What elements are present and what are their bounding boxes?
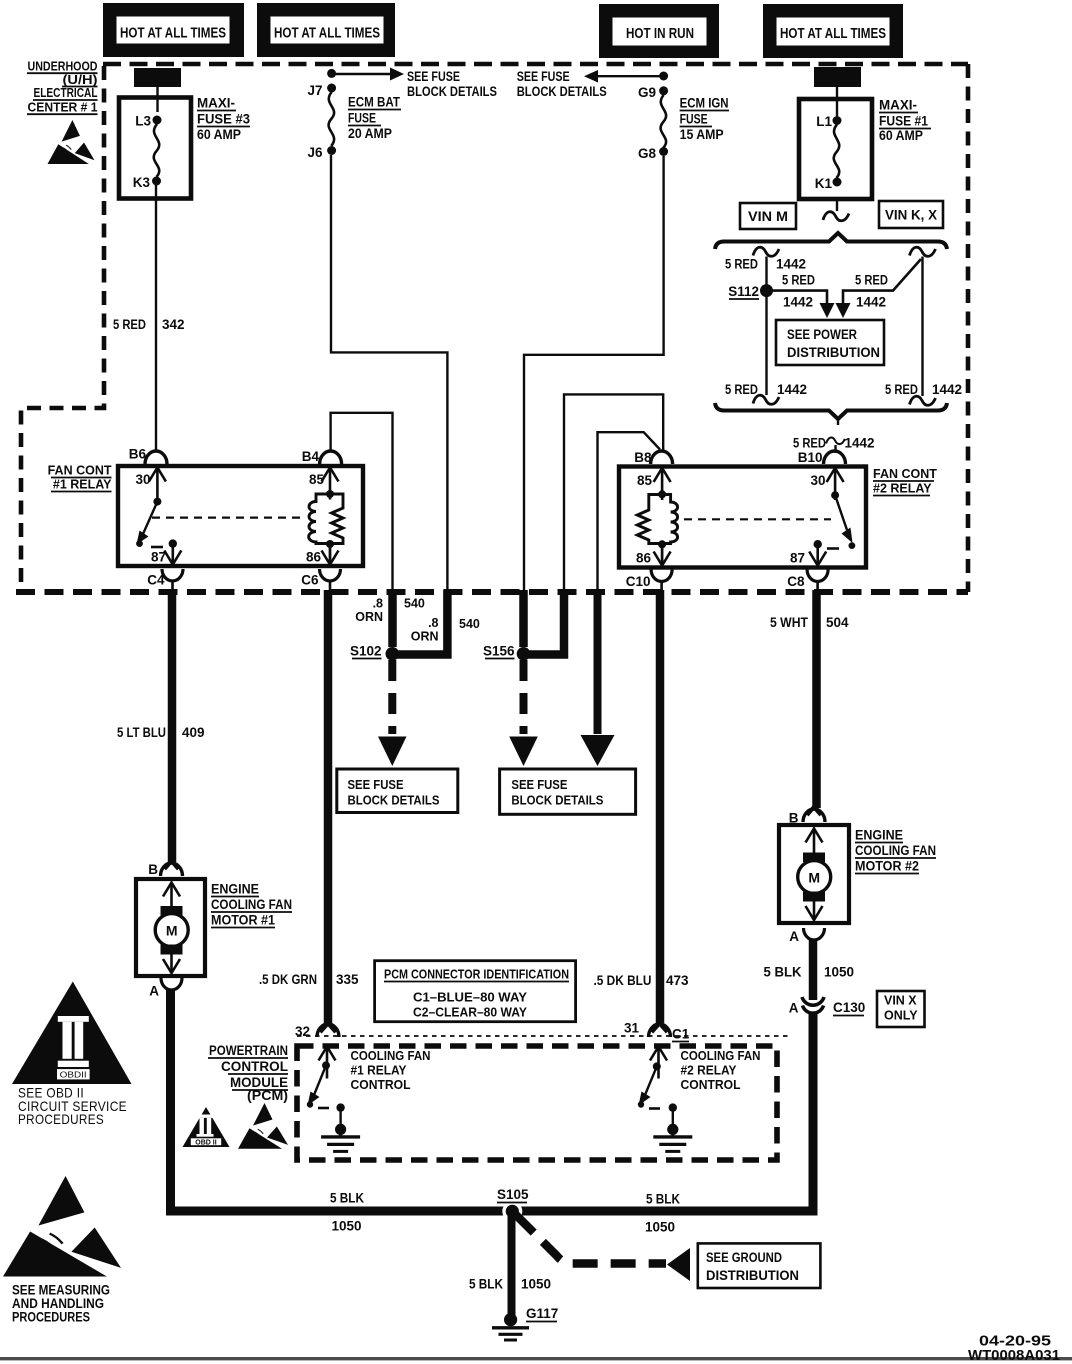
svg-text:30: 30: [135, 472, 150, 487]
fuse F3 terminal L3: [153, 116, 162, 125]
break VIN M branch: [753, 247, 779, 256]
svg-text:1050: 1050: [332, 1219, 362, 1234]
connector 32 at PCM: [317, 1024, 339, 1037]
svg-text:.5 DK BLU: .5 DK BLU: [594, 973, 652, 988]
connector A (motor 1): [161, 978, 182, 990]
FAN CONT #1 RELAY box: [118, 466, 363, 566]
connector B10: [824, 451, 846, 464]
relay2 switch common node: [831, 491, 839, 499]
relay2 pin 85: [654, 468, 671, 500]
svg-text:C1: C1: [672, 1027, 690, 1042]
heavy wire C6 to PCM pin 32 (.5 DK GRN 335): [324, 590, 333, 1023]
svg-text:1442: 1442: [776, 257, 806, 272]
svg-text:A: A: [789, 1001, 799, 1016]
motor1 brush top: [161, 906, 183, 916]
svg-text:C1–BLUE–80 WAY: C1–BLUE–80 WAY: [413, 990, 527, 1005]
svg-text:1442: 1442: [932, 382, 962, 397]
relay2 pin 86: [661, 544, 663, 566]
wire B4 feed riser (S102 to relay1 coil): [331, 413, 393, 592]
wire feed bar to fuse box: [156, 87, 158, 112]
svg-text:COOLING FAN: COOLING FAN: [211, 897, 292, 912]
PCM pin 31 arrow: [650, 1047, 667, 1079]
scan edge line: [0, 1357, 1072, 1360]
label 04-20-95 / WT0008A031: [968, 1334, 1060, 1364]
svg-text:HOT AT ALL TIMES: HOT AT ALL TIMES: [780, 26, 886, 42]
POWERTRAIN CONTROL MODULE (PCM) dashed box: [297, 1046, 777, 1160]
wire J6 down and over to S102 riser: [331, 155, 447, 592]
svg-text:#2 RELAY: #2 RELAY: [873, 482, 932, 496]
svg-text:VIN K, X: VIN K, X: [885, 208, 937, 223]
svg-text:A: A: [789, 929, 799, 944]
svg-text:C2–CLEAR–80 WAY: C2–CLEAR–80 WAY: [413, 1005, 527, 1020]
relay2 switch contact dash: [827, 547, 839, 550]
svg-text:SEE GROUND: SEE GROUND: [706, 1250, 782, 1265]
PCM driver 2 switch arm: [645, 1066, 657, 1095]
svg-text:86: 86: [306, 550, 322, 565]
PCM driver 1 ground: [339, 1108, 341, 1125]
svg-text:FUSE #3: FUSE #3: [197, 112, 250, 127]
ENGINE COOLING FAN MOTOR #2 box: [779, 825, 849, 923]
svg-text:5 RED: 5 RED: [725, 257, 758, 272]
svg-text:G117: G117: [526, 1306, 558, 1321]
SEE FUSE BLOCK DETAILS box (left): [337, 769, 458, 813]
connector 31 / C1 at PCM: [649, 1024, 671, 1037]
motor1 brush bottom: [161, 945, 183, 955]
svg-text:CONTROL: CONTROL: [681, 1077, 741, 1092]
connector C8: [807, 570, 828, 582]
svg-text:POWERTRAIN: POWERTRAIN: [209, 1043, 288, 1058]
label .8 ORN 540 (right pair): [411, 616, 480, 644]
label FAN CONT #2 RELAY: [873, 467, 937, 496]
relay2 contact 87 node: [814, 540, 822, 548]
relay1 coil top node: [326, 490, 334, 498]
svg-text:B8: B8: [634, 450, 652, 465]
MAXI-FUSE #1 feed bar: [814, 67, 861, 87]
relay1 pin 87: [172, 544, 174, 565]
ENGINE COOLING FAN MOTOR #1 box: [136, 879, 205, 976]
wire feed bar to fuse box: [836, 87, 838, 116]
fuse ECM IGN terminal G8: [659, 147, 668, 156]
connector B (motor 2): [803, 809, 825, 822]
dashed heavy wire S105 to ground distribution: [516, 1215, 666, 1264]
svg-text:M: M: [166, 923, 178, 939]
svg-text:60 AMP: 60 AMP: [197, 127, 241, 142]
svg-text:SEE FUSE: SEE FUSE: [407, 69, 460, 84]
ECM BAT fuse node J7: [327, 69, 336, 78]
svg-text:409: 409: [182, 725, 205, 740]
SEE POWER DISTRIBUTION box: [776, 320, 884, 365]
splice S112: [760, 284, 773, 297]
svg-text:504: 504: [826, 615, 849, 630]
PCM driver 1 switch arm: [314, 1065, 326, 1095]
svg-text:5 RED: 5 RED: [782, 273, 815, 288]
svg-text:C10: C10: [626, 574, 651, 589]
connector C10: [651, 570, 672, 582]
connector C6: [320, 569, 341, 581]
svg-text:C4: C4: [147, 573, 165, 588]
svg-text:S156: S156: [483, 644, 515, 659]
svg-text:FAN CONT: FAN CONT: [48, 464, 112, 478]
fuse F1 element: [834, 125, 839, 179]
svg-text:L3: L3: [135, 114, 151, 129]
svg-text:540: 540: [459, 617, 480, 631]
svg-text:ECM BAT: ECM BAT: [348, 95, 401, 110]
motor1 armature lead: [171, 882, 173, 973]
relay1 pin 86: [329, 544, 331, 565]
fuse F1 terminal L1: [833, 116, 842, 125]
heavy wire B8 branch to fuse block: [594, 590, 602, 734]
label SEE FUSE BLOCK DETAILS (second): [517, 69, 607, 99]
heavy wire C130 to ground bus: [508, 1012, 813, 1211]
svg-text:15 AMP: 15 AMP: [680, 127, 724, 142]
SEE GROUND DISTRIBUTION box: [698, 1243, 821, 1288]
heavy wire C8 to motor 2 (5 WHT 504): [812, 590, 821, 808]
svg-text:HOT AT ALL TIMES: HOT AT ALL TIMES: [120, 26, 226, 42]
PCM driver 2 ground: [672, 1108, 674, 1125]
wire VIN M branch to S112: [765, 257, 767, 396]
label UNDERHOOD (U/H) ELECTRICAL CENTER # 1: [27, 59, 98, 115]
svg-text:5 BLK: 5 BLK: [469, 1277, 503, 1292]
svg-text:MAXI-: MAXI-: [879, 98, 917, 113]
fuse F3 element: [154, 124, 159, 177]
svg-text:J6: J6: [307, 145, 323, 160]
svg-text:G8: G8: [638, 146, 657, 161]
relay1 coil bottom node: [326, 540, 334, 548]
svg-text:60 AMP: 60 AMP: [879, 128, 923, 143]
svg-text:FUSE #1: FUSE #1: [879, 114, 928, 129]
label ECM IGN FUSE 15 AMP: [680, 96, 729, 143]
FAN CONT #2 RELAY box: [619, 467, 866, 568]
motor2 pin out arrow: [806, 899, 823, 920]
relay1 coil: [309, 494, 343, 544]
svg-text:#1 RELAY: #1 RELAY: [53, 478, 112, 492]
svg-text:87: 87: [151, 550, 166, 565]
svg-text:J7: J7: [307, 83, 322, 98]
svg-text:PCM CONNECTOR IDENTIFICATION: PCM CONNECTOR IDENTIFICATION: [384, 967, 569, 982]
svg-text:OBDII: OBDII: [60, 1070, 87, 1080]
svg-text:5 BLK: 5 BLK: [646, 1192, 680, 1207]
svg-text:FAN CONT: FAN CONT: [873, 467, 937, 481]
svg-text:#1 RELAY: #1 RELAY: [351, 1063, 407, 1078]
PCM CONNECTOR IDENTIFICATION box: [375, 961, 576, 1022]
svg-text:1442: 1442: [783, 295, 813, 310]
motor1 pin out arrow: [163, 952, 180, 973]
relay1 pin 30: [149, 468, 166, 500]
maxi-fuse #3 box: [119, 98, 191, 199]
svg-text:M: M: [808, 870, 820, 886]
label FAN CONT #1 RELAY: [48, 464, 113, 492]
VIN M box: [740, 203, 796, 229]
svg-text:MOTOR #2: MOTOR #2: [855, 859, 919, 874]
svg-text:BLOCK DETAILS: BLOCK DETAILS: [517, 84, 607, 99]
PCM driver 2 switch node: [653, 1062, 661, 1070]
svg-text:ELECTRICAL: ELECTRICAL: [34, 85, 98, 100]
heavy wire motor1 to ground bus: [171, 990, 513, 1211]
heavy wire S105 to G117: [508, 1214, 516, 1316]
wire S112 to power distribution arrow: [767, 291, 828, 304]
ESD small warning triangle: [238, 1103, 288, 1149]
svg-text:K3: K3: [133, 175, 151, 190]
svg-text:HOT IN RUN: HOT IN RUN: [626, 26, 694, 42]
svg-text:ENGINE: ENGINE: [855, 828, 903, 843]
splice S156: [517, 647, 531, 661]
svg-text:ECM IGN: ECM IGN: [680, 96, 729, 111]
svg-text:VIN X: VIN X: [884, 994, 917, 1008]
fuse F1 terminal K1: [833, 178, 842, 187]
fuse ECM BAT terminal J6: [327, 146, 336, 155]
heavy wire ECM BAT drop into S102: [396, 590, 447, 655]
svg-text:S102: S102: [350, 644, 382, 659]
relay1 switch common node: [153, 498, 161, 506]
svg-text:5 RED: 5 RED: [113, 317, 146, 332]
motor2 brush bottom: [803, 892, 825, 902]
relay1 switch contact dash: [151, 546, 163, 549]
label COOLING FAN #1 RELAY CONTROL: [351, 1048, 431, 1092]
svg-text:SEE FUSE: SEE FUSE: [517, 69, 570, 84]
svg-text:COOLING FAN: COOLING FAN: [681, 1048, 761, 1063]
break below fuse 1: [823, 212, 849, 221]
svg-text:1442: 1442: [845, 436, 875, 451]
motor2 armature lead: [813, 828, 815, 920]
label ENGINE COOLING FAN MOTOR #2: [855, 828, 936, 874]
svg-text:.8: .8: [428, 616, 438, 630]
ESD large symbol: [3, 1176, 121, 1276]
label COOLING FAN #2 RELAY CONTROL: [681, 1048, 761, 1092]
wire branch to see fuse block details: [332, 73, 390, 75]
svg-text:WT0008A031: WT0008A031: [968, 1348, 1060, 1364]
PCM driver 2 contact dash: [649, 1107, 660, 1110]
svg-text:COOLING FAN: COOLING FAN: [351, 1048, 431, 1063]
heavy wire C10 to PCM pin 31 (.5 DK BLU 473): [656, 590, 665, 1023]
svg-text:BLOCK DETAILS: BLOCK DETAILS: [511, 792, 603, 807]
svg-text:87: 87: [790, 551, 805, 566]
connector B4: [320, 451, 342, 464]
connector C130: [802, 997, 824, 1013]
svg-text:L1: L1: [816, 114, 832, 129]
svg-text:CENTER # 1: CENTER # 1: [28, 100, 98, 115]
connector B (motor 1): [161, 863, 183, 876]
svg-text:5 LT BLU: 5 LT BLU: [117, 725, 166, 740]
svg-text:FUSE: FUSE: [680, 112, 708, 127]
wire B8 feed riser (S156 to relay2 coil): [564, 394, 663, 592]
svg-text:85: 85: [309, 472, 325, 487]
svg-text:B: B: [148, 862, 158, 877]
label MAXI-FUSE #1 60 AMP: [879, 98, 931, 144]
svg-text:335: 335: [336, 972, 359, 987]
svg-text:1050: 1050: [824, 965, 854, 980]
wire branch G9 to see fuse block details: [584, 70, 598, 83]
motor M1: [155, 914, 188, 947]
fuse ECM BAT terminal J7: [327, 84, 336, 93]
svg-text:ONLY: ONLY: [884, 1009, 918, 1023]
motor2 pin in arrow: [806, 829, 823, 861]
svg-text:B10: B10: [798, 450, 823, 465]
svg-text:S105: S105: [497, 1187, 529, 1202]
svg-text:.8: .8: [373, 597, 383, 611]
OBD II small warning triangle: [183, 1107, 230, 1147]
PCM connector split dotted line: [297, 1035, 790, 1037]
svg-text:(PCM): (PCM): [247, 1088, 288, 1103]
svg-text:PROCEDURES: PROCEDURES: [12, 1310, 90, 1325]
svg-text:SEE POWER: SEE POWER: [787, 327, 857, 342]
motor1 pin in arrow: [163, 883, 180, 915]
svg-text:COOLING FAN: COOLING FAN: [855, 843, 936, 858]
relay2 pin 30: [827, 468, 844, 500]
label SEE MEASURING AND HANDLING PROCEDURES: [12, 1283, 110, 1325]
relay2 switch arm: [835, 495, 847, 530]
wire bracket to break to B10: [837, 419, 839, 425]
connector B6: [145, 451, 167, 464]
heavy wire C4 to motor 1 (5 LT BLU 409): [168, 590, 177, 862]
svg-text:20 AMP: 20 AMP: [348, 126, 392, 141]
svg-text:.5 DK GRN: .5 DK GRN: [259, 972, 317, 987]
svg-text:ORN: ORN: [355, 610, 383, 624]
label POWERTRAIN CONTROL MODULE (PCM): [208, 1043, 288, 1103]
option bracket (bottom): [715, 403, 947, 419]
svg-text:DISTRIBUTION: DISTRIBUTION: [706, 1268, 799, 1283]
title box HOT AT ALL TIMES (second): [257, 3, 395, 57]
heavy wire motor2 to C130: [809, 940, 818, 1000]
wire VIN K,X branch down: [921, 257, 923, 397]
svg-text:MOTOR #1: MOTOR #1: [211, 913, 275, 928]
svg-text:DISTRIBUTION: DISTRIBUTION: [787, 345, 880, 360]
wire K3 to B6 (5 RED 342): [155, 185, 157, 452]
svg-text:CONTROL: CONTROL: [221, 1059, 288, 1074]
wire K1 down to break: [836, 199, 838, 211]
svg-text:5 RED: 5 RED: [885, 382, 918, 397]
label ENGINE COOLING FAN MOTOR #1: [211, 882, 292, 928]
svg-text:5 WHT: 5 WHT: [770, 615, 809, 630]
relay1 internal dashed link: [152, 516, 306, 518]
relay1 pin 85: [322, 468, 339, 500]
svg-text:MAXI-: MAXI-: [197, 96, 235, 111]
relay2 coil: [637, 495, 677, 544]
svg-text:473: 473: [666, 973, 689, 988]
svg-text:A: A: [149, 984, 159, 999]
ground G117: [492, 1313, 529, 1340]
relay1 switch arm: [143, 502, 157, 534]
relay1 contact 87 node: [169, 539, 177, 547]
svg-text:C130: C130: [833, 1000, 865, 1015]
svg-text:#2 RELAY: #2 RELAY: [681, 1063, 737, 1078]
svg-text:K1: K1: [815, 176, 833, 191]
svg-text:540: 540: [404, 597, 425, 611]
PCM driver 1 switch node: [322, 1061, 330, 1069]
svg-text:5 BLK: 5 BLK: [764, 965, 802, 980]
fuse ECM BAT element: [329, 92, 334, 146]
svg-text:1050: 1050: [645, 1220, 675, 1235]
break VIN K,X branch: [910, 247, 936, 256]
svg-text:FUSE: FUSE: [348, 111, 376, 126]
label SEE FUSE BLOCK DETAILS (left): [407, 69, 497, 99]
connector B8: [651, 451, 673, 464]
wire G8 down and over to S156 riser: [524, 156, 664, 592]
fuse ECM IGN element: [661, 95, 666, 148]
heavy wire B8 riser into S156: [527, 590, 564, 655]
svg-text:B4: B4: [302, 449, 320, 464]
break right lower: [910, 396, 936, 405]
svg-text:1050: 1050: [521, 1277, 551, 1292]
heavy wire riser into S156: [519, 590, 528, 647]
svg-text:HOT AT ALL TIMES: HOT AT ALL TIMES: [274, 26, 380, 42]
relay2 pin 87: [817, 544, 819, 566]
dashed heavy wire S156 to fuse block: [520, 660, 528, 734]
title box HOT AT ALL TIMES (right): [763, 4, 903, 58]
svg-text:86: 86: [636, 551, 652, 566]
break left lower: [753, 395, 779, 404]
svg-text:SEE FUSE: SEE FUSE: [348, 777, 404, 792]
VIN X ONLY box: [877, 991, 925, 1027]
motor2 brush top: [803, 853, 825, 863]
svg-text:G9: G9: [638, 85, 656, 100]
label .8 ORN 540 (left pair): [355, 597, 425, 625]
fuse F3 terminal K3: [152, 177, 161, 186]
svg-text:S112: S112: [728, 284, 759, 299]
SEE FUSE BLOCK DETAILS box (right): [500, 769, 636, 814]
svg-text:30: 30: [810, 473, 825, 488]
VIN K, X box: [879, 201, 943, 228]
connector C4: [162, 569, 183, 581]
label SEE OBD II CIRCUIT SERVICE PROCEDURES: [18, 1086, 127, 1128]
label ECM BAT FUSE 20 AMP: [348, 95, 401, 142]
svg-text:5 RED: 5 RED: [855, 273, 888, 288]
relay2 internal dashed link: [684, 518, 831, 520]
svg-text:SEE FUSE: SEE FUSE: [511, 777, 567, 792]
PCM pin 32 arrow: [319, 1047, 336, 1079]
svg-text:5 RED: 5 RED: [725, 382, 758, 397]
splice S105: [502, 1201, 522, 1221]
svg-text:PROCEDURES: PROCEDURES: [18, 1112, 104, 1127]
svg-text:C6: C6: [301, 573, 319, 588]
relay2 coil top node: [658, 490, 666, 498]
svg-text:B6: B6: [129, 447, 147, 462]
svg-text:85: 85: [637, 473, 653, 488]
maxi-fuse #1 box: [799, 99, 872, 199]
underhood electrical center dashed boundary: [16, 64, 968, 592]
svg-text:CONTROL: CONTROL: [351, 1077, 411, 1092]
label MAXI-FUSE #3 60 AMP: [197, 96, 250, 143]
MAXI-FUSE #3 feed bar: [134, 68, 181, 87]
splice S102: [386, 647, 400, 661]
heavy wire riser into S102: [388, 590, 397, 647]
svg-text:BLOCK DETAILS: BLOCK DETAILS: [348, 792, 440, 807]
relay2 coil bottom node: [658, 540, 666, 548]
wire VIN K,X branch to power distribution arrow: [843, 259, 921, 304]
svg-text:VIN M: VIN M: [748, 209, 788, 224]
PCM driver 1 contact node: [336, 1103, 344, 1111]
svg-text:C8: C8: [787, 574, 805, 589]
ESD warning symbol (top left): [48, 120, 95, 164]
svg-text:OBD II: OBD II: [195, 1140, 216, 1147]
OBD II large symbol: [12, 982, 132, 1085]
svg-text:5 BLK: 5 BLK: [330, 1191, 364, 1206]
svg-text:BLOCK DETAILS: BLOCK DETAILS: [407, 84, 497, 99]
wire B8 to fuse-block riser: [598, 432, 661, 592]
fuse ECM IGN terminal G9: [659, 86, 668, 95]
motor M2: [798, 861, 831, 894]
svg-text:31: 31: [624, 1021, 640, 1036]
svg-text:5 RED: 5 RED: [793, 436, 826, 451]
svg-text:342: 342: [162, 317, 185, 332]
svg-text:ENGINE: ENGINE: [211, 882, 259, 897]
connector A (motor 2): [804, 928, 825, 940]
svg-text:1442: 1442: [777, 382, 807, 397]
dashed heavy wire S102 to fuse block: [388, 660, 396, 734]
option bracket (top): [715, 233, 947, 249]
title box HOT IN RUN: [599, 4, 719, 58]
PCM driver 1 contact dash: [318, 1107, 329, 1110]
title box HOT AT ALL TIMES (left): [103, 3, 244, 57]
